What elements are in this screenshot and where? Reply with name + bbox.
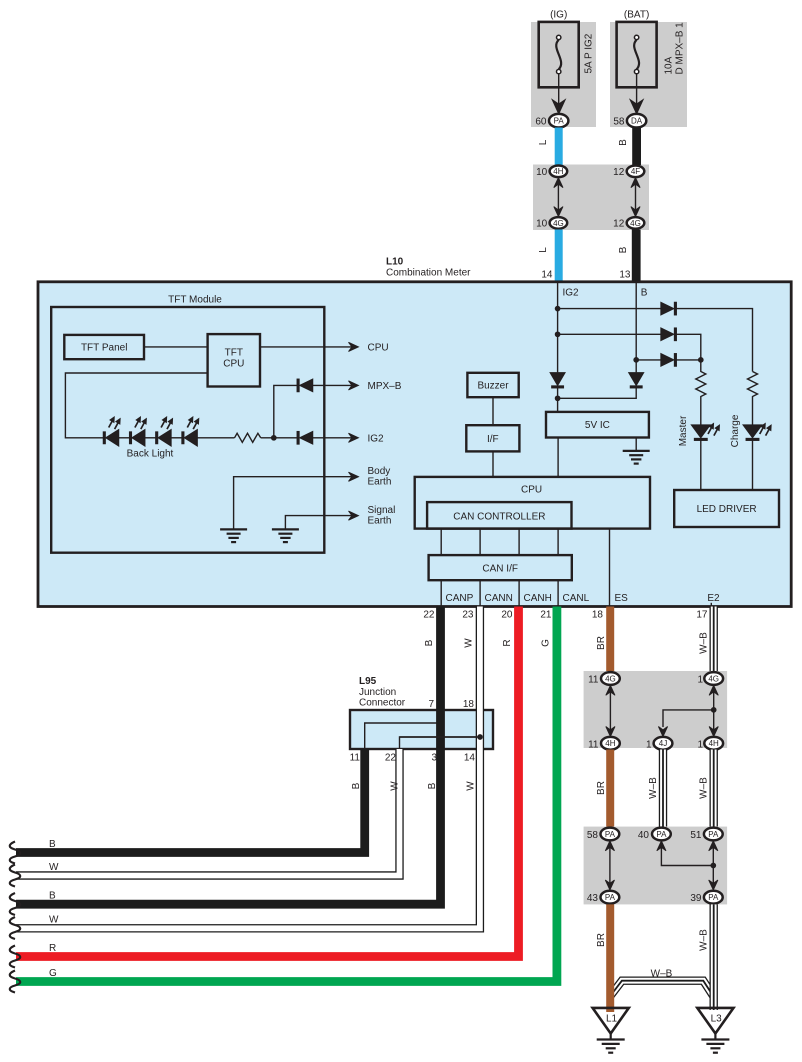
svg-text:13: 13 <box>619 270 631 281</box>
wire BR ES to 4G <box>596 607 610 672</box>
svg-text:CPU: CPU <box>223 359 244 370</box>
svg-text:5V IC: 5V IC <box>585 420 610 431</box>
svg-text:CANP: CANP <box>446 593 474 604</box>
node dot master line <box>698 358 703 363</box>
LED backlight 3 <box>156 417 173 446</box>
svg-text:R: R <box>502 639 513 646</box>
wire fuse IG to 60 PA <box>552 74 565 114</box>
connector 1 4G <box>697 672 723 685</box>
node dot IG2 branch 1 <box>555 306 560 311</box>
svg-text:(BAT): (BAT) <box>624 10 649 21</box>
wire <box>171 437 182 439</box>
svg-text:10: 10 <box>536 219 548 230</box>
svg-text:B: B <box>618 139 629 146</box>
diode MPX-B row <box>297 379 313 392</box>
wire W-B 4H to 51 PA <box>699 750 714 827</box>
wire I/F to CPU <box>492 451 494 477</box>
connector 10 4H <box>536 166 567 179</box>
svg-text:17: 17 <box>696 610 708 621</box>
svg-text:Charge: Charge <box>730 414 741 447</box>
svg-text:40: 40 <box>638 830 650 841</box>
node dot IG2 branch 2 <box>555 332 560 337</box>
svg-text:1: 1 <box>646 739 652 750</box>
svg-text:B: B <box>49 891 56 902</box>
connector 12 4G <box>613 217 644 230</box>
resistor backlight <box>235 433 261 442</box>
LED DRIVER box <box>674 490 779 527</box>
svg-text:23: 23 <box>462 610 474 621</box>
Buzzer box <box>467 373 518 397</box>
diode IG2 row <box>297 431 313 444</box>
wire ES from CPU to pin <box>609 529 611 607</box>
wire <box>145 437 156 439</box>
svg-text:G: G <box>49 968 57 979</box>
svg-text:PA: PA <box>708 893 719 902</box>
wire B tap L95 pin 11 to row B1 <box>16 749 365 853</box>
svg-text:11: 11 <box>588 675 599 686</box>
diode branch 1 <box>661 302 677 315</box>
connector 1 4H <box>697 737 723 750</box>
diode branch 3 <box>661 354 677 367</box>
svg-text:4H: 4H <box>709 739 719 748</box>
svg-text:22: 22 <box>385 753 397 764</box>
svg-text:10: 10 <box>536 167 548 178</box>
wire resistor to node <box>261 437 297 439</box>
svg-text:Body: Body <box>368 466 391 477</box>
svg-text:G: G <box>541 639 552 647</box>
junction arrows 11 4G to 11 4H <box>606 685 615 736</box>
svg-text:L1: L1 <box>606 1014 618 1025</box>
svg-text:L10: L10 <box>386 257 404 268</box>
junction arrows 1 4G to 1 4H and 1 4J <box>658 685 718 736</box>
wire IG2 vertical <box>557 282 559 373</box>
svg-text:Earth: Earth <box>368 477 392 488</box>
svg-text:4G: 4G <box>708 674 719 683</box>
svg-text:Back Light: Back Light <box>127 449 174 460</box>
connector 58 DA <box>613 114 646 128</box>
wire charge LED to LED driver <box>752 441 754 491</box>
node dot L95 pin18 <box>478 735 483 740</box>
connector 43 PA <box>587 891 619 904</box>
svg-text:Combination Meter: Combination Meter <box>386 268 471 279</box>
wire TFT CPU to CPU arrow <box>260 342 389 353</box>
svg-text:PA: PA <box>708 830 719 839</box>
svg-text:5A P IG2: 5A P IG2 <box>584 33 595 73</box>
TFT CPU box <box>208 334 260 386</box>
svg-text:BR: BR <box>596 636 607 650</box>
L95 internal bus to pin 22 <box>400 737 481 749</box>
svg-text:W: W <box>49 915 59 926</box>
wire branch 1 to charge line <box>558 309 753 372</box>
svg-text:14: 14 <box>541 270 553 281</box>
wire body earth <box>234 466 392 529</box>
node dot B branch 3 <box>634 358 639 363</box>
svg-text:CPU: CPU <box>368 342 389 353</box>
connector panel 4G to 4H/4J <box>584 671 728 748</box>
svg-text:W: W <box>464 638 475 648</box>
ground signal earth <box>272 529 299 542</box>
svg-text:39: 39 <box>690 893 702 904</box>
CPU box <box>415 477 650 529</box>
node dot join <box>555 396 560 401</box>
svg-text:CAN CONTROLLER: CAN CONTROLLER <box>453 511 545 522</box>
svg-text:BR: BR <box>596 781 607 795</box>
wire node up to MPX-B row <box>274 385 297 437</box>
svg-text:22: 22 <box>423 610 435 621</box>
junction arrows 4F to 4G <box>631 178 640 217</box>
wire master LED to LED driver <box>700 441 702 491</box>
svg-text:W–B: W–B <box>699 929 710 951</box>
CAN CONTROLLER box <box>427 502 571 528</box>
wire diode to IG2 arrow <box>313 433 384 444</box>
continuation curl B1 <box>10 842 21 864</box>
svg-text:I/F: I/F <box>487 434 499 445</box>
connector 58 PA <box>587 828 619 841</box>
wire G CANL to row G <box>16 607 557 982</box>
svg-text:51: 51 <box>690 830 702 841</box>
junction arrows 58 PA to 43 PA <box>605 841 614 890</box>
wire B vertical <box>635 282 637 373</box>
connector 1 4J <box>646 737 672 750</box>
fuse panel (BAT) <box>610 22 687 127</box>
5V IC box <box>546 412 649 438</box>
svg-text:60: 60 <box>535 116 547 127</box>
junction arrows 4H to 4G <box>554 178 563 217</box>
svg-text:43: 43 <box>587 893 599 904</box>
svg-text:11: 11 <box>588 739 599 750</box>
wire W-B E2 to 4G <box>699 607 714 672</box>
wire R CANH to row R <box>16 607 519 957</box>
svg-text:CANL: CANL <box>563 593 590 604</box>
svg-text:L: L <box>538 247 549 253</box>
svg-text:LED DRIVER: LED DRIVER <box>697 504 757 515</box>
svg-text:IG2: IG2 <box>368 433 385 444</box>
svg-text:Connector: Connector <box>359 698 406 709</box>
svg-text:MPX–B: MPX–B <box>368 381 402 392</box>
svg-text:W–B: W–B <box>648 777 659 799</box>
svg-text:20: 20 <box>501 610 513 621</box>
svg-text:4F: 4F <box>631 167 640 176</box>
LED backlight 1 <box>103 417 120 446</box>
svg-text:PA: PA <box>656 830 667 839</box>
svg-text:D MPX–B 1: D MPX–B 1 <box>675 22 686 75</box>
svg-text:W: W <box>390 781 401 791</box>
wire W-B ground link <box>610 969 714 997</box>
connector 12 4F <box>613 166 644 179</box>
wire diodes join to 5V IC <box>558 388 637 412</box>
svg-text:PA: PA <box>554 117 565 126</box>
svg-text:1: 1 <box>697 675 703 686</box>
svg-text:B: B <box>49 839 56 850</box>
connector 40 PA <box>638 828 671 841</box>
pin separator E2 <box>710 603 712 607</box>
wire TFT Panel to TFT CPU <box>144 346 208 348</box>
svg-text:L: L <box>538 139 549 145</box>
LED backlight 4 <box>182 417 199 446</box>
svg-text:14: 14 <box>464 753 476 764</box>
svg-text:W–B: W–B <box>651 969 673 980</box>
svg-text:TFT Panel: TFT Panel <box>81 343 128 354</box>
continuation curl W1 <box>10 865 21 887</box>
svg-text:W–B: W–B <box>699 777 710 799</box>
diode branch 2 <box>661 328 677 341</box>
TFT Panel box <box>64 335 144 359</box>
resistor charge <box>748 372 758 425</box>
I/F box <box>466 425 519 451</box>
wire BR 43 PA to ground L1 <box>596 904 610 1012</box>
wire W-B 39 PA to ground L3 <box>699 904 714 1010</box>
svg-text:1: 1 <box>697 739 703 750</box>
svg-text:4J: 4J <box>659 739 667 748</box>
svg-text:4H: 4H <box>553 167 563 176</box>
wire L from 4G to pin 14 <box>538 230 559 282</box>
wire W tap L95 pin 22 to row W1 <box>16 749 401 876</box>
connector 51 PA <box>690 828 722 841</box>
svg-text:10A: 10A <box>664 56 675 74</box>
CAN I/F box <box>429 555 572 580</box>
svg-text:12: 12 <box>613 219 625 230</box>
fuse panel (IG) <box>531 22 596 127</box>
svg-text:58: 58 <box>587 830 599 841</box>
svg-text:B: B <box>424 639 435 646</box>
LED master <box>678 415 720 446</box>
wire B from 4G to pin 13 <box>618 230 636 282</box>
connector panel PA <box>584 827 728 905</box>
svg-text:Buzzer: Buzzer <box>477 381 509 392</box>
wire TFT CPU to back light chain <box>65 373 207 438</box>
L95 Junction Connector box <box>350 676 493 749</box>
svg-text:21: 21 <box>540 610 552 621</box>
svg-text:4G: 4G <box>605 674 616 683</box>
node dot L95 pin7 <box>438 721 443 726</box>
wire W-B 4J to 40 PA <box>648 750 663 827</box>
node dot backlight <box>271 435 276 440</box>
wire 5V IC to ground <box>635 438 637 451</box>
LED charge <box>730 414 771 447</box>
svg-text:CANH: CANH <box>524 593 552 604</box>
fuse 10A D MPX-B 1 <box>617 22 686 87</box>
svg-text:TFT: TFT <box>225 348 243 359</box>
svg-text:CAN I/F: CAN I/F <box>482 563 518 574</box>
svg-text:B: B <box>618 246 629 253</box>
junction arrow 40 PA branch <box>657 841 714 866</box>
ground 5V IC <box>623 451 650 464</box>
svg-text:ES: ES <box>615 593 629 604</box>
wire W CANN through L95 to row W2 <box>16 607 480 929</box>
diode down IG2 line <box>550 373 565 388</box>
wire B CANP through L95 to row B2 <box>16 607 441 905</box>
svg-text:12: 12 <box>613 167 625 178</box>
node dot L95 pin 18 junction <box>400 735 483 740</box>
continuation curl G <box>10 971 21 993</box>
wire buzzer to I/F <box>492 397 494 425</box>
wires CAN controller to CAN I/F <box>441 529 558 556</box>
svg-text:58: 58 <box>613 116 625 127</box>
L95 internal bus to pin 11 <box>365 723 441 749</box>
svg-text:W: W <box>466 781 477 791</box>
svg-text:4H: 4H <box>605 739 615 748</box>
svg-text:4G: 4G <box>630 219 641 228</box>
junction arrows 51 PA to 39 PA <box>709 841 718 890</box>
svg-text:E2: E2 <box>707 593 720 604</box>
svg-text:11: 11 <box>350 753 361 764</box>
svg-text:Junction: Junction <box>359 687 396 698</box>
svg-text:B: B <box>351 782 362 789</box>
svg-text:(IG): (IG) <box>550 10 567 21</box>
ECU L10 Combination Meter box <box>38 257 791 607</box>
ground L3 <box>697 1008 733 1053</box>
svg-text:IG2: IG2 <box>563 288 580 299</box>
continuation curl W2 <box>10 917 21 939</box>
ground body earth <box>220 529 247 542</box>
connector 10 4G <box>536 217 567 230</box>
wire signal earth <box>285 505 395 529</box>
LED backlight 2 <box>129 417 146 446</box>
svg-text:DA: DA <box>631 117 643 126</box>
svg-text:18: 18 <box>463 699 475 710</box>
wires CAN I/F to pins <box>441 580 558 606</box>
wire diode to MPX-B arrow <box>313 381 402 392</box>
svg-text:4G: 4G <box>553 219 564 228</box>
wire fuse BAT to 58 DA <box>630 74 643 114</box>
connector 60 PA <box>535 114 568 128</box>
svg-text:Signal: Signal <box>368 505 396 516</box>
wire <box>119 437 130 439</box>
wire 5V IC to CPU <box>557 438 559 477</box>
svg-text:R: R <box>49 943 56 954</box>
connector panel 4H/4F to 4G <box>533 165 649 231</box>
svg-text:L3: L3 <box>711 1014 723 1025</box>
svg-text:Earth: Earth <box>368 516 392 527</box>
svg-text:W: W <box>49 862 59 873</box>
svg-text:L95: L95 <box>359 676 377 687</box>
svg-text:W–B: W–B <box>699 632 710 654</box>
svg-text:CANN: CANN <box>485 593 513 604</box>
wire L from PA to 4H <box>538 128 559 166</box>
resistor master <box>696 358 706 425</box>
wire B from DA to 4F <box>618 128 637 166</box>
svg-text:TFT Module: TFT Module <box>168 295 222 306</box>
wire branch 2 to master line <box>558 334 701 357</box>
connector 11 4G <box>588 672 620 685</box>
connector 39 PA <box>690 891 722 904</box>
continuation curl R <box>10 946 21 968</box>
TFT Module box <box>51 295 324 553</box>
svg-text:B: B <box>427 782 438 789</box>
svg-text:18: 18 <box>592 610 604 621</box>
wire to resistor <box>197 437 234 439</box>
diode down B line <box>629 373 644 388</box>
svg-text:B: B <box>641 288 648 299</box>
svg-text:PA: PA <box>605 893 616 902</box>
fuse 5A P IG2 <box>539 22 595 87</box>
wire branch 3 B to master line <box>636 359 701 361</box>
svg-text:7: 7 <box>428 699 434 710</box>
svg-text:BR: BR <box>596 933 607 947</box>
wire BR 4H to 58 PA <box>596 750 610 827</box>
svg-text:CPU: CPU <box>521 485 542 496</box>
continuation curl B2 <box>10 893 21 915</box>
svg-text:Master: Master <box>678 415 689 446</box>
svg-text:PA: PA <box>605 830 616 839</box>
ground L1 <box>593 1008 629 1053</box>
connector 11 4H <box>588 737 620 750</box>
